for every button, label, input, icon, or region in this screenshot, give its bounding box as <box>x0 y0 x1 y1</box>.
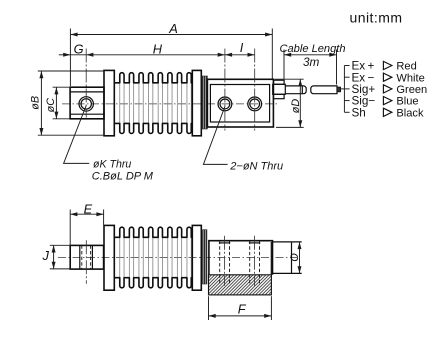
bottom view cable gland cylinder <box>273 241 302 243</box>
dimension F line <box>209 315 272 317</box>
bottom view left bellows flange <box>104 225 114 290</box>
dimension øC line <box>55 87 57 119</box>
right mounting block (outer outline) <box>207 79 273 127</box>
bottom view left stub (threaded boss) <box>70 245 103 269</box>
cable length right extension line <box>336 50 338 85</box>
svg-text:2−øN Thru: 2−øN Thru <box>229 160 283 172</box>
right bellows flange <box>192 70 201 135</box>
bellows (corrugated boot), side view <box>120 83 192 123</box>
svg-text:Red: Red <box>396 61 416 73</box>
bottom view right bellows flange <box>192 225 201 290</box>
triangle marker row 5 <box>383 108 392 116</box>
cable end ferrule <box>337 87 341 92</box>
dimension øD line <box>299 79 301 127</box>
bottom view main centerline <box>58 256 297 258</box>
triangle marker row 4 <box>383 97 392 105</box>
hole 2 centerline bottom view <box>254 236 256 286</box>
wire / main centerline of side view <box>62 103 279 105</box>
left bellows flange <box>104 70 114 135</box>
cable gland boss <box>273 84 286 94</box>
E right extension line <box>103 210 105 225</box>
dimension A line <box>70 34 272 36</box>
F right extension line <box>270 296 272 320</box>
svg-text:øD: øD <box>290 99 302 114</box>
stub vertical centerline <box>85 240 87 283</box>
J bottom extension line <box>50 268 71 270</box>
svg-text:I: I <box>240 40 244 55</box>
svg-text:unit:mm: unit:mm <box>350 10 403 26</box>
svg-text:O: O <box>289 253 301 262</box>
dimension J line <box>53 245 55 269</box>
svg-text:C.BøL DP M: C.BøL DP M <box>92 170 154 182</box>
hidden tapped hole 2 in bottom view <box>249 241 251 284</box>
svg-text:øC: øC <box>45 98 57 113</box>
svg-text:G: G <box>74 41 84 56</box>
svg-text:White: White <box>396 72 424 84</box>
extension line right of A <box>271 29 273 79</box>
J top extension line <box>50 244 71 246</box>
øC top extension line <box>53 86 71 88</box>
wire fan-out bracket <box>343 66 345 113</box>
cable length left extension line <box>283 50 285 80</box>
triangle marker row 3 <box>383 85 392 93</box>
svg-text:øB: øB <box>30 96 42 110</box>
triangle marker row 2 <box>383 73 392 81</box>
hidden tapped hole 1 in bottom view <box>219 241 221 284</box>
hole 2 vertical centerline <box>254 49 256 131</box>
dimension E line <box>70 213 103 215</box>
hole 1 centerline bottom view <box>224 236 226 286</box>
svg-text:Sh: Sh <box>352 106 366 119</box>
threaded neck between flange and block <box>202 76 207 129</box>
svg-text:J: J <box>42 248 50 263</box>
mounting hole øK in left cap <box>79 97 93 111</box>
cable length dimension line <box>284 54 337 56</box>
svg-text:H: H <box>153 41 163 56</box>
svg-text:Blue: Blue <box>396 96 418 108</box>
svg-text:E: E <box>84 201 93 216</box>
E left extension line <box>69 210 71 245</box>
bottom view bellows <box>120 238 192 278</box>
øD top extension line <box>275 78 304 80</box>
hole 2 of 2-øN <box>248 97 262 111</box>
hatched base plate (section) <box>209 275 272 295</box>
svg-text:Black: Black <box>396 107 424 119</box>
øC bottom extension line <box>53 118 71 120</box>
øB top extension line <box>38 70 104 72</box>
øB bottom extension line <box>38 134 104 136</box>
bottom view mounting block <box>209 241 273 275</box>
svg-text:A: A <box>168 21 178 36</box>
hidden thread hole lines in stub <box>81 245 83 269</box>
svg-text:øK Thru: øK Thru <box>93 159 131 171</box>
load cell left end cap (mounting boss) <box>70 87 104 119</box>
øD bottom extension line <box>276 126 304 128</box>
dimension O line <box>299 242 301 274</box>
cable segment 2 (after break) <box>311 86 337 94</box>
dimension G line with outside arrow <box>59 54 71 56</box>
svg-text:3m: 3m <box>303 55 320 69</box>
right mounting block (inner outline) <box>210 85 269 123</box>
svg-text:Green: Green <box>396 84 427 96</box>
leader line for øK hole <box>64 106 90 164</box>
hole 1 vertical centerline <box>224 49 226 131</box>
leader line for 2-øN holes <box>203 107 227 165</box>
F left extension line <box>208 296 210 320</box>
cable segment 1 <box>285 86 306 94</box>
dimension øB line <box>40 71 42 135</box>
hole centerline (vertical) through left cap <box>85 49 87 118</box>
dimension I line <box>225 54 255 56</box>
dimension H line <box>86 54 225 56</box>
svg-text:Cable Length: Cable Length <box>280 43 346 55</box>
extension line left of A/G <box>69 29 71 87</box>
svg-text:F: F <box>238 302 247 317</box>
triangle marker row 1 <box>383 61 392 69</box>
bottom view threaded neck <box>203 230 207 284</box>
hole 1 of 2-øN <box>218 97 232 111</box>
